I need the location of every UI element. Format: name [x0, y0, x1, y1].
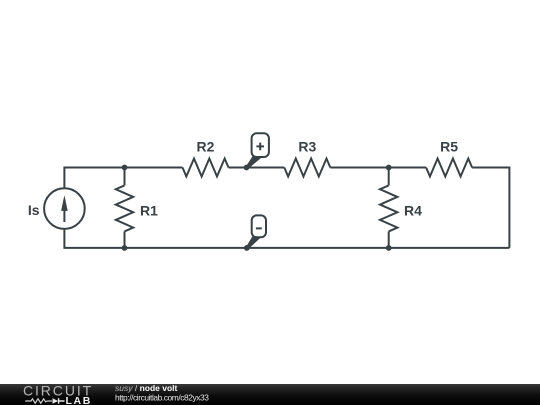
node dot R1 top [122, 165, 128, 171]
svg-text:R4: R4 [404, 202, 422, 218]
wire: R3 to R5 through R4 top node [330, 167, 426, 169]
resistor R4 [380, 168, 397, 248]
svg-text:R3: R3 [298, 139, 316, 155]
resistor R3 [284, 159, 330, 177]
node dot R4 bottom [386, 245, 392, 251]
svg-text:R1: R1 [140, 202, 158, 218]
wire: bottom rail [64, 229, 509, 248]
wire: top-left from source to R2 [64, 168, 182, 189]
voltage probe + flag [246, 133, 269, 169]
svg-text:R5: R5 [440, 139, 458, 155]
node dot + probe [244, 165, 250, 171]
node dot - probe [244, 245, 250, 251]
voltage probe - flag [246, 215, 266, 249]
svg-text:http://circuitlab.com/c82yx33: http://circuitlab.com/c82yx33 [115, 393, 209, 403]
footer bar [0, 384, 540, 405]
logo diode glyph [53, 398, 59, 404]
svg-text:LAB: LAB [66, 395, 92, 405]
resistor R2 [183, 159, 229, 177]
current source Is [44, 188, 85, 229]
node dot R1 bottom [122, 245, 128, 251]
wire: R5 to right corner and down [472, 168, 509, 248]
resistor R1 [116, 168, 133, 248]
resistor R5 [426, 159, 472, 177]
svg-text:Is: Is [28, 202, 40, 218]
node dot R4 top [386, 165, 392, 171]
svg-text:R2: R2 [197, 139, 215, 155]
svg-text:susy / node volt: susy / node volt [115, 383, 178, 393]
logo resistor glyph [25, 399, 52, 403]
wire: R2 to R3 through node with + probe [229, 167, 285, 169]
